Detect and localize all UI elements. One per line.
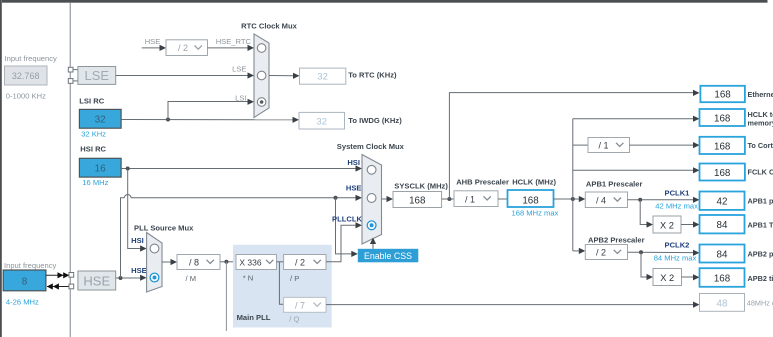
wire PLL mux to /M divider: [162, 259, 177, 265]
label: Input frequency (LSE): [5, 54, 58, 63]
wire Enable CSS up arrow to mux: [370, 238, 376, 249]
svg-text:Input frequency: Input frequency: [5, 54, 58, 63]
svg-text:Ethernet PTP clock: Ethernet PTP clock: [748, 90, 773, 99]
svg-text:APB1 periphera: APB1 periphera: [748, 197, 773, 206]
svg-text:SYSCLK (MHz): SYSCLK (MHz): [394, 182, 448, 191]
label: 32 KHz: [81, 129, 106, 138]
svg-text:PLLCLK: PLLCLK: [332, 214, 362, 223]
svg-text:APB2 timer cloc: APB2 timer cloc: [748, 274, 773, 283]
svg-text:AHB Prescaler: AHB Prescaler: [456, 177, 509, 186]
output box Ethernet PTP 168: [700, 86, 745, 102]
PLL source mux shape: [147, 233, 162, 293]
wire RTC mux to To-RTC box: [269, 73, 300, 79]
To RTC output box 32: [300, 68, 346, 84]
svg-text:APB2 periphera: APB2 periphera: [748, 250, 773, 259]
svg-text:X 336: X 336: [239, 257, 261, 267]
svg-text:Input frequency: Input frequency: [4, 261, 57, 270]
label: LSI RC: [79, 97, 104, 106]
label: To IWDG (KHz): [348, 116, 402, 125]
wire HSE to PLL source mux: [116, 275, 147, 281]
wire SYSCLK up to Ethernet PTP: [449, 90, 699, 199]
SYSCLK box 168: [393, 192, 442, 208]
junction LSI: [166, 118, 170, 122]
svg-text:X 2: X 2: [660, 273, 674, 283]
label: Main PLL: [237, 313, 271, 322]
label: PLL Source Mux: [134, 223, 194, 232]
wire APB1 branch to X2: [640, 200, 653, 228]
wire LSI to IWDG: [121, 117, 299, 123]
svg-text:32: 32: [316, 116, 327, 127]
svg-text:LSE: LSE: [232, 65, 246, 74]
output box APB2 timer 168: [700, 268, 745, 287]
output box APB1 timer 84: [700, 215, 745, 233]
wire HCLK to APB1 prescaler: [554, 196, 586, 202]
svg-text:PLL Source Mux: PLL Source Mux: [134, 223, 194, 232]
wire AHB to HCLK box: [498, 198, 507, 200]
label: APB2 peripheral: [748, 250, 773, 259]
svg-text:84 MHz max: 84 MHz max: [654, 254, 697, 263]
output box 48MHz 48 (inactive): [700, 294, 745, 312]
svg-text:HSI: HSI: [347, 158, 360, 167]
RTC mux radio LSI (selected): [257, 98, 266, 107]
svg-text:168: 168: [714, 90, 731, 101]
oscillator box LSI 32: [79, 109, 121, 128]
svg-text:To IWDG (KHz): To IWDG (KHz): [348, 116, 402, 125]
svg-text:48MHz clock: 48MHz clock: [747, 298, 773, 307]
wire input to HSE (double arrows right): [46, 272, 69, 278]
label: RTC Clock Mux: [241, 22, 297, 31]
svg-text:To RTC (KHz): To RTC (KHz): [348, 71, 397, 80]
PLL mux radio HSI: [150, 244, 159, 253]
wire APB1 to PCLK1 output: [628, 197, 700, 203]
wire HSE up to system clock mux (with hop over HSI wire): [121, 195, 363, 279]
label: AHB Prescaler: [456, 177, 509, 186]
label: APB1 Prescaler: [586, 180, 643, 189]
Main PLL panel: [233, 245, 332, 328]
svg-text:PCLK2: PCLK2: [665, 241, 690, 250]
HSE enable square 1: [69, 273, 74, 278]
svg-text:/ 7: / 7: [295, 300, 305, 310]
svg-text:LSI RC: LSI RC: [79, 97, 104, 106]
svg-text:/ P: / P: [290, 274, 299, 283]
wire HCLK bus vertical: [572, 119, 574, 251]
wire HSE feedback (double arrows left): [47, 283, 69, 289]
label: HSI RC: [80, 145, 106, 154]
oscillator box HSE: [78, 271, 116, 290]
label: Input frequency (HSE): [4, 261, 57, 270]
wire N branch down to Q: [279, 262, 283, 305]
divider dropdown /8 (PLLM): [177, 255, 220, 270]
junction HSE: [119, 276, 123, 280]
svg-text:HSE: HSE: [131, 266, 147, 275]
svg-text:* N: * N: [243, 274, 254, 283]
system clock mux shape: [362, 155, 382, 245]
label: System Clock Mux: [337, 142, 405, 151]
svg-text:HSI: HSI: [131, 236, 144, 245]
label: 48MHz clocks: [747, 298, 773, 307]
svg-text:8: 8: [22, 277, 28, 288]
svg-text:84: 84: [717, 249, 728, 260]
junction APB2 x2: [639, 250, 643, 254]
label: / P: [290, 274, 299, 283]
multiplier dropdown X336 (PLLN): [236, 255, 277, 270]
svg-text:APB1 Timer cloc: APB1 Timer cloc: [748, 221, 773, 230]
svg-text:168: 168: [714, 168, 731, 179]
wire LSI branch to RTC mux: [168, 99, 254, 120]
panel left border: [0, 0, 2, 337]
svg-text:To Cortex system t: To Cortex system t: [748, 141, 773, 150]
svg-text:FCLK Cortex cloc: FCLK Cortex cloc: [748, 168, 773, 177]
label: APB2 Prescaler: [588, 235, 645, 244]
wire X2 to APB2 timer output: [682, 274, 700, 280]
wire HSI branch to PLL source mux: [128, 169, 147, 252]
svg-text:HSE: HSE: [83, 273, 110, 288]
svg-text:168: 168: [714, 141, 731, 152]
oscillator box LSE: [78, 67, 116, 85]
HSE input frequency box 8: [3, 270, 46, 291]
divider dropdown /2 (PLLP): [284, 255, 326, 270]
To IWDG output box 32: [299, 112, 345, 129]
divider dropdown /1 (AHB): [454, 191, 498, 207]
svg-text:/ Q: / Q: [289, 314, 299, 323]
divider dropdown /2 (APB2): [585, 245, 627, 260]
wire CSS branch to Enable CSS button: [336, 198, 358, 257]
label: To RTC (KHz): [348, 71, 397, 80]
svg-text:X 2: X 2: [660, 220, 674, 230]
label: / Q: [289, 314, 299, 323]
label: APB1 peripheral: [748, 197, 773, 206]
label: APB1 timer: [748, 221, 773, 230]
svg-text:168: 168: [522, 195, 539, 206]
wire /2 to RTC mux: [208, 45, 255, 51]
svg-text:168: 168: [714, 113, 731, 124]
label: / M: [186, 274, 197, 283]
wire PLLCLK from /P up to system clock mux: [326, 222, 362, 262]
wire APB2 to PCLK2 output: [628, 250, 700, 256]
junction HCLK bus: [571, 197, 575, 201]
system mux radio HSE: [367, 194, 376, 203]
label: APB2 timer: [748, 274, 773, 283]
wire N to P: [277, 261, 284, 263]
Enable CSS button: [358, 249, 419, 262]
svg-text:16: 16: [95, 164, 107, 175]
net label LSI: [235, 93, 246, 102]
panel top border: [2, 0, 768, 3]
svg-text:HCLK (MHz): HCLK (MHz): [512, 177, 556, 186]
svg-text:84: 84: [717, 220, 728, 231]
divider dropdown /7 (PLLQ, disabled): [284, 297, 326, 312]
wire SYSCLK to AHB prescaler: [442, 198, 454, 200]
wire bus to HCLK AHB output: [573, 116, 700, 122]
output box APB2 peripheral 84: [700, 245, 745, 263]
wire system mux to SYSCLK box: [382, 196, 394, 202]
svg-text:Main PLL: Main PLL: [237, 313, 271, 322]
svg-text:RTC Clock Mux: RTC Clock Mux: [241, 22, 297, 31]
LSE input frequency box 32.768: [5, 66, 48, 85]
svg-text:/ 2: / 2: [596, 248, 606, 258]
RTC mux radio LSE: [257, 71, 266, 80]
divider dropdown /2 (HSE_RTC): [166, 40, 208, 56]
svg-text:/ 8: / 8: [189, 258, 199, 268]
wire LSE to RTC mux: [116, 72, 254, 78]
svg-text:Enable CSS: Enable CSS: [364, 251, 412, 261]
svg-text:32.768: 32.768: [12, 71, 40, 81]
svg-text:32: 32: [317, 72, 328, 83]
multiplier box X2 (APB2 timers): [653, 269, 682, 286]
net label LSE (RTC mux input): [232, 65, 246, 74]
wire bus to cortex divider: [573, 144, 588, 146]
output box To Cortex 168: [700, 137, 745, 154]
divider dropdown /1 (Cortex): [588, 138, 630, 153]
label: HCLK (MHz): [512, 177, 556, 186]
wire bus to FCLK output: [573, 167, 700, 173]
label: * N: [243, 274, 254, 283]
net label HSE (system mux input): [346, 184, 362, 193]
junction HSE-CSS: [334, 196, 338, 200]
label: 0-1000 KHz: [6, 92, 46, 101]
label: To Cortex: [748, 141, 773, 150]
wire X2 to APB1 timer output: [681, 221, 700, 227]
LSE enable square 1: [68, 67, 78, 72]
net label HSE (PLL mux input): [131, 266, 147, 275]
label: SYSCLK (MHz): [394, 182, 448, 191]
wire HSE stub to RTC divider: [142, 45, 166, 51]
RTC mux radio HSE_RTC: [257, 44, 266, 53]
svg-text:HSE: HSE: [145, 37, 161, 46]
PLL mux radio HSE (selected): [150, 273, 159, 282]
svg-text:32: 32: [95, 115, 107, 126]
svg-text:memory and DMA: memory and DMA: [748, 119, 773, 128]
svg-text:48: 48: [717, 298, 728, 309]
wire bus to APB2 prescaler: [573, 248, 586, 254]
label: 84 MHz max: [654, 254, 697, 263]
svg-text:PCLK1: PCLK1: [665, 189, 691, 198]
svg-text:4-26 MHz: 4-26 MHz: [6, 298, 39, 307]
svg-text:168: 168: [714, 274, 731, 285]
svg-text:LSI: LSI: [235, 93, 246, 102]
label: HCLK to AHB: [748, 110, 773, 128]
svg-text:/ M: / M: [186, 274, 197, 283]
multiplier box X2 (APB1 timers): [653, 216, 681, 233]
svg-text:APB2 Prescaler: APB2 Prescaler: [588, 235, 645, 244]
net label PCLK2: [665, 241, 690, 250]
RTC clock mux shape: [254, 34, 269, 118]
net label PLLCLK (system mux input): [332, 214, 362, 223]
output box FCLK 168: [700, 164, 745, 181]
column divider line: [69, 3, 71, 337]
wire /M to PLL N: [220, 261, 236, 263]
svg-text:32 KHz: 32 KHz: [81, 129, 106, 138]
label: Ethernet PTP: [748, 90, 773, 99]
LSE enable square 2: [68, 79, 78, 84]
system mux radio HSI: [367, 165, 376, 174]
svg-text:APB1 Prescaler: APB1 Prescaler: [586, 180, 643, 189]
svg-text:168 MHz max: 168 MHz max: [512, 209, 559, 218]
oscillator box HSI 16: [79, 158, 121, 177]
wire down from /M junction: [225, 262, 227, 331]
divider dropdown /4 (APB1): [585, 192, 627, 208]
junction HSI: [126, 167, 130, 171]
HSE enable square 2: [69, 284, 74, 289]
svg-text:HSI RC: HSI RC: [80, 145, 106, 154]
net label HSE_RTC: [216, 37, 252, 46]
net label HSE (to RTC divider): [145, 37, 161, 46]
svg-text:16 MHz: 16 MHz: [82, 178, 108, 187]
svg-text:/ 1: / 1: [465, 194, 475, 204]
junction after /M: [224, 260, 228, 264]
wire PLLQ to 48MHz output: [326, 302, 700, 308]
label: 168 MHz max: [512, 209, 559, 218]
wire APB2 branch to X2: [641, 252, 653, 280]
svg-text:HSE_RTC: HSE_RTC: [216, 37, 252, 46]
label: 42 MHz max: [655, 201, 698, 210]
net label HSI (system mux input): [347, 158, 360, 167]
svg-text:HSE: HSE: [346, 184, 362, 193]
label: 16 MHz: [82, 178, 108, 187]
svg-text:168: 168: [409, 195, 426, 206]
junction APB1 x2: [638, 198, 642, 202]
net label PCLK1: [665, 189, 691, 198]
svg-text:/ 2: / 2: [178, 43, 188, 53]
svg-text:42: 42: [717, 197, 728, 208]
label: FCLK: [748, 168, 773, 177]
system mux radio PLLCLK (selected): [367, 221, 376, 230]
junction SYSCLK: [447, 197, 451, 201]
wire HSI to system clock mux: [121, 165, 362, 171]
svg-text:LSE: LSE: [85, 68, 110, 83]
output box HCLK 168: [700, 109, 745, 126]
svg-text:/ 2: / 2: [295, 258, 305, 268]
label: 4-26 MHz: [6, 298, 39, 307]
svg-text:System Clock Mux: System Clock Mux: [337, 142, 405, 151]
HCLK box 168: [508, 190, 554, 207]
output box APB1 peripheral 42: [700, 192, 745, 210]
net label HSI (PLL mux input): [131, 236, 144, 245]
svg-text:42 MHz max: 42 MHz max: [655, 201, 698, 210]
svg-text:/ 4: / 4: [596, 195, 606, 205]
wire cortex divider to output: [630, 142, 700, 148]
svg-text:0-1000 KHz: 0-1000 KHz: [6, 92, 46, 101]
svg-text:/ 1: / 1: [598, 141, 608, 151]
